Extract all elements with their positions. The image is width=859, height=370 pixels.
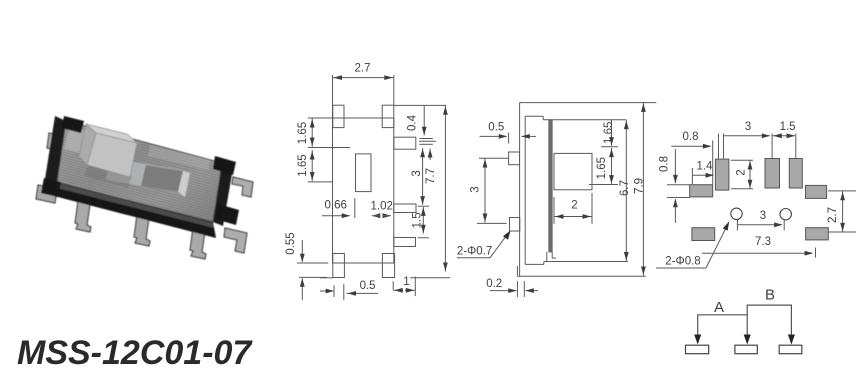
svg-text:1.65: 1.65 xyxy=(297,122,309,144)
top view: dim 0.4 ticks xyxy=(419,138,433,140)
top view: dim 2.7 extension lines xyxy=(332,75,334,118)
top view: tick below 1.5 xyxy=(418,237,429,239)
photo: knob shadow on tray xyxy=(84,164,132,188)
svg-text:0.4: 0.4 xyxy=(407,114,419,131)
top view: dim 0.5 arrow bottom xyxy=(347,292,379,294)
layout: center pad 3 xyxy=(789,159,802,189)
svg-text:2: 2 xyxy=(736,169,748,175)
photo: left lower pin xyxy=(36,185,57,203)
layout: ticks below holes xyxy=(736,220,738,231)
layout: dim 0.8 horizontal arrow xyxy=(671,145,710,147)
top view: center slot xyxy=(356,154,372,192)
side view: dim 1.65 lower segment xyxy=(611,148,613,184)
schematic: arrow onto terminal 2 xyxy=(744,335,751,345)
top view: dim 0.55 arrows xyxy=(301,240,303,262)
top view: pad bottom extension line left xyxy=(320,277,333,279)
side view: dim 7.9 line xyxy=(642,103,644,276)
schematic: wire bracket B xyxy=(747,305,791,336)
svg-text:1.5: 1.5 xyxy=(412,212,424,228)
top view: dim 1 arrows xyxy=(393,289,403,291)
photo: slider knob left face xyxy=(79,124,96,165)
photo: slider knob front face xyxy=(87,133,137,177)
top view: dim 1.02 arrows xyxy=(372,213,381,218)
photo: right upper bent pin xyxy=(232,177,253,197)
photo: slider knob top face xyxy=(86,124,137,143)
svg-text:6.7: 6.7 xyxy=(619,180,631,196)
top view: right side pad A xyxy=(394,137,416,149)
top view: corner pad bottom-left xyxy=(333,254,345,278)
svg-text:0.5: 0.5 xyxy=(360,280,376,292)
photo: left end small tab xyxy=(47,133,63,151)
svg-text:1.4: 1.4 xyxy=(697,161,714,173)
layout: extension lines above pad1 xyxy=(718,134,720,159)
schematic: terminal 3 xyxy=(779,345,802,354)
photo: black base bottom band xyxy=(54,182,216,238)
layout: dim 1.5 line xyxy=(772,135,795,137)
side view: tab2 top extension xyxy=(477,222,507,224)
svg-text:7.3: 7.3 xyxy=(755,236,771,248)
top view: corner pad bottom-right xyxy=(382,254,394,278)
photo: slider tray dark right part xyxy=(141,165,183,192)
side view: pin tab upper xyxy=(509,152,520,165)
top view: dim 0.55 upper tick xyxy=(297,262,328,264)
svg-text:0.55: 0.55 xyxy=(285,232,297,254)
svg-text:2: 2 xyxy=(571,200,577,212)
side view: foot left edge xyxy=(516,266,518,276)
top view: dim 0.4 line xyxy=(423,105,425,135)
side view: top edge / extension to 6.7 xyxy=(543,119,626,121)
layout: center pad 2 xyxy=(765,159,780,189)
top view: dim 2.7 line with arrows xyxy=(333,77,394,79)
layout: dim 3 between holes xyxy=(737,224,781,226)
svg-text:0.66: 0.66 xyxy=(325,200,347,212)
schematic: terminal 1 xyxy=(686,345,709,354)
svg-text:1.5: 1.5 xyxy=(780,121,796,133)
layout: right pad upper xyxy=(806,185,827,198)
top view: right side pad B xyxy=(394,204,416,213)
side view: dim 3 line xyxy=(484,158,486,222)
layout: center pad 1 (tall) xyxy=(715,159,729,190)
layout: dim 0.8 vertical xyxy=(674,149,676,183)
svg-text:2.7: 2.7 xyxy=(827,207,839,223)
top view: tick at pad B xyxy=(418,205,429,207)
photo: black corner tab top-left xyxy=(62,116,84,133)
photo: slider tray smooth floor xyxy=(105,158,184,193)
side view: dim 1.65 upper segment xyxy=(611,120,613,146)
svg-text:1.65: 1.65 xyxy=(596,157,608,179)
top view: tick at 1.65 level xyxy=(308,147,350,149)
side view: plate top step xyxy=(525,115,543,117)
photo: cover highlight streaks xyxy=(64,127,110,160)
layout: extension for 1.4 xyxy=(691,168,693,184)
photo: metal cover top face xyxy=(57,121,222,222)
photo: tray bright lip xyxy=(178,171,190,197)
svg-text:3: 3 xyxy=(411,170,423,176)
top view: dim 0.66 arrow xyxy=(322,215,350,217)
layout: dim 7.3 line xyxy=(702,252,812,254)
layout: ticks for 0.8 vertical xyxy=(667,184,690,186)
side view: tab1 bottom extension xyxy=(479,157,509,159)
svg-text:3: 3 xyxy=(760,210,766,222)
photo: front pin 2 xyxy=(134,215,150,246)
schematic: terminal 2 xyxy=(735,345,757,354)
layout: extension lines above pads 2-3 xyxy=(771,134,773,159)
top view: dim 1.5 line xyxy=(422,207,424,234)
top view: dim 3 line xyxy=(422,148,424,205)
top view: dim 1.65 second segment xyxy=(311,150,313,181)
layout: dim 1.4 arrow xyxy=(692,174,713,176)
side view: cover strip xyxy=(549,120,552,252)
svg-text:MSS-12C01-07: MSS-12C01-07 xyxy=(17,334,253,370)
side view: dim 0.5 right arrow xyxy=(522,135,537,137)
photo: front pin 1 xyxy=(75,201,91,232)
top view: corner pad top-right xyxy=(382,105,394,127)
svg-text:7.9: 7.9 xyxy=(634,178,646,194)
side view: bottom step to plate xyxy=(543,262,545,265)
layout: right pad lower xyxy=(806,228,829,240)
svg-text:1.02: 1.02 xyxy=(371,201,393,213)
top view: dim 1 ticks xyxy=(392,281,394,290)
svg-text:1.65: 1.65 xyxy=(603,122,615,144)
layout: dim 2 line xyxy=(749,160,751,189)
svg-text:3: 3 xyxy=(470,186,482,192)
layout: left pad upper xyxy=(690,185,713,197)
top view: corner pad top-left xyxy=(333,105,344,127)
side view: tick 1.65 bottom xyxy=(589,184,618,186)
layout: dim 2 ticks xyxy=(731,159,753,161)
photo: black base left end face xyxy=(45,116,66,182)
photo: black corner tab bottom-left xyxy=(41,178,61,197)
top view: right side pad C xyxy=(394,238,416,247)
side view: dim 0.2 arrows xyxy=(490,290,516,292)
top view: slot left extension tick xyxy=(354,198,356,218)
svg-text:0.8: 0.8 xyxy=(683,131,699,143)
schematic: wire bracket A xyxy=(698,315,748,337)
side view: dim 6.7 line xyxy=(625,120,627,261)
layout: hole circle 2 xyxy=(780,209,791,220)
svg-text:1: 1 xyxy=(403,276,409,288)
svg-text:1.65: 1.65 xyxy=(297,154,309,176)
svg-text:3: 3 xyxy=(745,121,751,133)
top view: tick at second 1.65 level xyxy=(308,181,333,183)
side view: mounting plate xyxy=(519,103,521,277)
svg-text:0.5: 0.5 xyxy=(488,122,504,134)
photo: black corner tab bottom-right xyxy=(215,204,239,225)
layout: dim 3 top line xyxy=(724,135,770,137)
schematic: arrow onto terminal 1 xyxy=(694,335,701,345)
photo: right lower bent pin xyxy=(224,228,247,253)
side view: dim 0.5 tick xyxy=(508,133,510,144)
svg-text:A: A xyxy=(714,299,724,316)
svg-text:0.2: 0.2 xyxy=(486,278,502,290)
top view: right extension line at pad top level xyxy=(394,104,446,106)
side view: dim 0.2 ticks xyxy=(516,281,518,297)
side view: dim 2 ticks xyxy=(553,197,555,224)
layout: extension from left pad right edge xyxy=(712,141,714,185)
top view: dim 0.5 ticks xyxy=(333,285,335,297)
top view: dim 0.55 lower tick xyxy=(299,276,327,278)
top view: dim 1.65 first segment xyxy=(311,118,313,147)
top view: pad bottom extension right xyxy=(410,277,450,279)
side view: dim 0.5 left arrow xyxy=(480,135,507,137)
photo: black base right end face xyxy=(213,163,233,226)
photo: black corner tab top-right xyxy=(213,156,236,175)
svg-text:2-Φ0.8: 2-Φ0.8 xyxy=(665,256,700,268)
top view: body outline xyxy=(333,118,394,263)
layout: dim 7.3 tick xyxy=(815,248,817,258)
schematic: arrow onto terminal 3 xyxy=(788,335,795,345)
side view: body bottom line / extension to 6.7 xyxy=(544,261,628,263)
layout: dim 2.7 ticks xyxy=(828,190,856,192)
photo: front pin 3 xyxy=(190,228,206,259)
side view: dim 2 arrows xyxy=(554,216,592,218)
svg-text:2.7: 2.7 xyxy=(355,63,371,75)
layout: hole circle 1 xyxy=(731,208,742,219)
side view: pin tab lower xyxy=(510,218,520,232)
top view: dim 7.7 line xyxy=(444,105,446,271)
svg-text:7.7: 7.7 xyxy=(425,168,437,184)
side view: cover bottom step xyxy=(546,252,548,262)
top view: body top edge extension left xyxy=(308,117,333,119)
side view: foot bottom / extension to 7.9 xyxy=(517,275,645,277)
layout: left pad lower xyxy=(692,228,715,241)
svg-text:B: B xyxy=(765,287,775,304)
photo: body side face gray strip xyxy=(57,183,214,228)
svg-text:0.8: 0.8 xyxy=(659,156,671,172)
layout: dim 2.7 line xyxy=(842,191,844,232)
side view: plate top extension to 7.9 xyxy=(525,102,656,104)
side view: slider knob profile xyxy=(554,153,592,189)
side view: tick 1.65 mid xyxy=(601,146,618,148)
svg-text:2-Φ0.7: 2-Φ0.7 xyxy=(457,246,492,258)
